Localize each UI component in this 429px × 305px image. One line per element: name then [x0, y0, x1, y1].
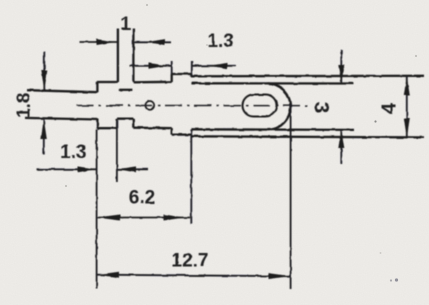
dim 1 right arrow line: [133, 41, 171, 43]
collar left step vertical: [96, 82, 98, 92]
svg-text:1.8: 1.8: [14, 93, 34, 118]
dim 1 left arrow line: [80, 41, 118, 43]
flange bottom edge: [172, 133, 192, 135]
arrowhead dim1.8 bottom (points up): [41, 119, 47, 139]
svg-text:3: 3: [310, 102, 333, 114]
dim 3 top arrow line: [340, 50, 342, 84]
slot obround hole: [243, 95, 277, 117]
flange left step vertical top: [171, 74, 173, 82]
collar bottom edge left: [97, 127, 117, 129]
dim 3 bottom arrow line: [340, 130, 342, 164]
arrowhead dim6.2 left (points left): [97, 215, 120, 221]
dim 1.3 bottom left arrow line: [37, 168, 97, 170]
blade outer bottom edge: [191, 136, 424, 137]
svg-text:12.7: 12.7: [172, 251, 209, 272]
collar bottom step vertical left: [96, 119, 98, 128]
dim 1.3 top left arrow line: [130, 65, 172, 67]
notch step down vertical: [132, 119, 134, 128]
svg-text:1.3: 1.3: [60, 142, 86, 163]
arrowhead dim3 bottom (points up): [338, 130, 344, 148]
arrowhead dim4 top (points up): [404, 76, 410, 96]
dim 1.8 top arrow line: [43, 52, 45, 92]
flange left step vertical bottom: [171, 128, 173, 134]
collar top edge left of tab: [97, 81, 118, 83]
extension line at tab left x=116.9: [116, 121, 118, 183]
tab left side: [117, 29, 119, 83]
dim 1.3 bottom right arrow line: [117, 168, 149, 170]
arrowhead dim3 top (points down): [338, 65, 344, 83]
arrowhead dim1.8 top (points down): [41, 71, 47, 91]
extension line flange left top x=171.7: [171, 61, 173, 74]
extension line at collar left x=96.6: [96, 129, 98, 289]
extension line at flange right x=191.3: [190, 130, 192, 224]
svg-text:1: 1: [120, 14, 131, 35]
flange top edge: [172, 73, 192, 75]
extension line flange right top x=191.8: [191, 61, 193, 76]
dim 1.8 bottom arrow line: [43, 120, 45, 155]
dim 4 double arrow line: [406, 76, 408, 138]
collar top edge right of tab: [133, 81, 171, 84]
arrowhead dim1.3top left (points right): [149, 63, 168, 69]
arrowhead dim1 left (points right at tab left): [97, 39, 116, 45]
centerline dash-dot: [77, 105, 310, 107]
arrowhead dim1.3top right (points left, offset): [209, 63, 228, 69]
arrowhead dim12.7 left (points left): [97, 272, 119, 278]
collar bottom edge right: [133, 127, 171, 130]
tab right side: [132, 29, 134, 83]
wire shaft bottom edge: [25, 118, 97, 120]
wire shaft top edge: [27, 90, 97, 92]
blade inner top edge: [191, 82, 353, 84]
arrowhead dim6.2 right (points right, slight offset): [164, 215, 186, 221]
dim 1.3 top right arrow line: [192, 65, 236, 67]
small circle hole: [145, 101, 154, 110]
arrowhead dim1.3bot left (points right): [78, 166, 97, 172]
tab fold line: [119, 89, 133, 91]
arrowhead dim12.7 right (points right): [268, 273, 290, 279]
notch bottom edge under tab: [117, 118, 133, 120]
flange right step vertical top: [190, 74, 192, 77]
extension line at cap apex x=290.6: [290, 105, 292, 289]
blade outer top edge: [191, 75, 424, 78]
svg-text:6.2: 6.2: [129, 188, 155, 209]
arrowhead dim1 right (points left, offset): [147, 39, 165, 45]
scan speckles: [65, 4, 417, 282]
arrowhead dim1.3bot right (points left): [117, 166, 136, 172]
svg-text:4: 4: [379, 102, 401, 114]
dim 12.7 line: [97, 275, 291, 277]
arrowhead dim4 bottom (points down): [404, 118, 410, 138]
notch step up vertical: [116, 119, 118, 128]
blade inner bottom edge: [191, 128, 354, 131]
rounded cap arc around slot: [267, 83, 290, 129]
dim 6.2 line: [97, 217, 191, 219]
svg-text:1.3: 1.3: [207, 31, 233, 52]
